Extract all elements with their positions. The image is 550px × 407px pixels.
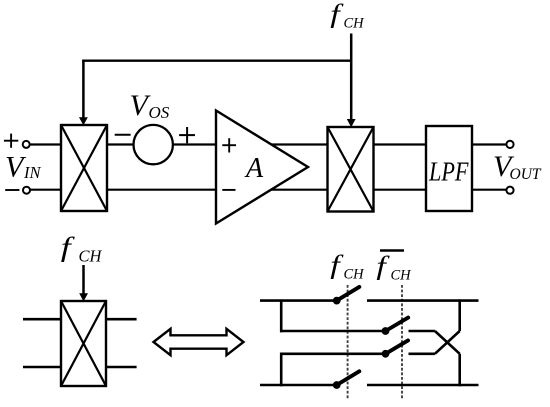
symbol: equivalence double arrow (154, 329, 244, 355)
label + (V_OS polarity) (179, 127, 195, 143)
wire: vertical join to bottom output rail (458, 354, 461, 387)
terminal: output + port circle (506, 141, 513, 148)
chopper CH2 (output chopper box with X) (328, 127, 374, 212)
wire: branch from top rail down to row 2 (280, 299, 283, 332)
source V_OS (offset voltage circle) (134, 125, 173, 164)
svg-text:OS: OS (149, 103, 170, 122)
wire: cross diagonal row2 -> bottom (435, 331, 460, 354)
label f_CH (bottom left) (61, 232, 103, 265)
terminal: input + port circle (23, 141, 30, 148)
svg-text:CH: CH (391, 268, 413, 284)
op-amp A (amplifier triangle) (216, 111, 308, 224)
svg-text:CH: CH (79, 247, 103, 266)
wire: row 3 output segment (409, 352, 435, 355)
svg-text:IN: IN (23, 163, 41, 182)
wire: f_CH vertical drop into chopper CH1 (with arrowhead) (79, 60, 88, 126)
wire: f_CH arrow into chopper CH3 (with arrowhead) (79, 265, 88, 301)
label - (V_OS polarity) (115, 134, 131, 136)
wire: vertical join to top output rail (458, 299, 461, 331)
filter LPF (low-pass filter box) (426, 126, 472, 211)
switch S4 (f_CH, bottom) (333, 371, 359, 389)
label f_CH (top) (330, 0, 365, 32)
wire: CH3 right output stub (top) (106, 318, 137, 321)
wire: top rail (input through V_OS and A to chopper CH2, LPF, output) (30, 143, 507, 145)
wire: f_CH vertical into chopper CH2 (with arrowhead) (347, 34, 356, 128)
wire: row 2 line to switch S2 (280, 330, 386, 333)
wire: dashed control line f_CH-bar (401, 285, 403, 399)
wire: branch from row 3 down to bottom rail (280, 353, 283, 387)
terminal: output - port circle (506, 187, 513, 194)
label f_CH-bar (switch network, over dashed line 2) (376, 251, 412, 284)
switch S3 (f_CH-bar, row 3) (382, 340, 408, 357)
svg-text:LPF: LPF (428, 156, 469, 186)
wire: cross diagonal row3 -> top (435, 331, 460, 354)
switch S2 (f_CH-bar, row 2) (382, 318, 409, 335)
svg-text:CH: CH (344, 267, 366, 283)
wire: feedback horizontal f_CH line (82, 60, 351, 62)
wire: dashed control line f_CH (347, 285, 349, 399)
wire: bottom input rail (left segment to switch S4) (260, 384, 337, 387)
wire: CH3 left input stub (top) (23, 318, 61, 321)
wire: row 2 output segment (409, 330, 435, 333)
label V_OUT (493, 150, 542, 183)
svg-text:A: A (244, 153, 264, 184)
svg-text:CH: CH (344, 16, 366, 32)
switch S1 (f_CH, top) (333, 287, 359, 305)
wire: bottom rail (input through A to chopper CH2, LPF, output) (30, 189, 507, 191)
label V_IN (5, 150, 41, 183)
wire: bottom output rail (right of switch S4) (367, 384, 479, 387)
label f_CH (switch network, over dashed line 1) (330, 250, 365, 282)
wire: row 3 line to switch S3 (280, 352, 386, 355)
wire: CH3 right output stub (bottom) (106, 366, 137, 369)
chopper CH1 (input chopper box with X) (61, 125, 107, 211)
label - (input polarity) (5, 189, 19, 191)
wire: top output rail (right of switch S1) (367, 299, 479, 302)
wire: CH3 left input stub (bottom) (23, 366, 61, 369)
terminal: input - port circle (23, 187, 30, 194)
wire: top input rail (left segment to switch S1) (260, 299, 337, 302)
chopper CH3 (symbol box with X) (61, 301, 106, 386)
svg-text:OUT: OUT (510, 166, 542, 183)
label V_OS (130, 89, 170, 122)
label + (input polarity) (4, 134, 18, 148)
